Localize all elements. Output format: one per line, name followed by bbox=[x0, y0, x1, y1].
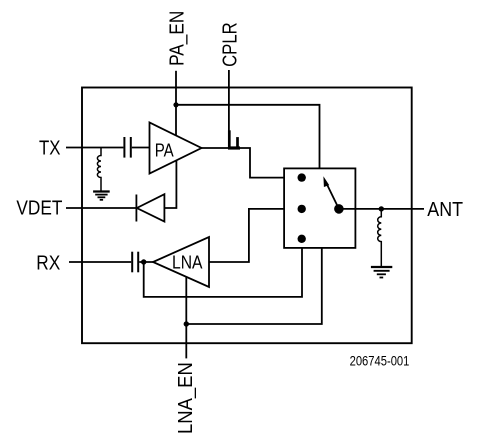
inductor L1 (TX shunt) bbox=[97, 148, 101, 192]
node switch throw 2 bbox=[298, 205, 306, 213]
svg-text:VDET: VDET bbox=[16, 197, 62, 219]
switch U1 box bbox=[284, 168, 355, 248]
ground (TX shunt) bbox=[93, 192, 110, 200]
node PA_EN junction bbox=[173, 102, 178, 107]
wire RX bypass to switch bbox=[144, 239, 302, 297]
wire VDET lead bbox=[66, 207, 136, 209]
op-amp LNA (low noise amplifier) bbox=[153, 237, 209, 287]
node ANT junction bbox=[379, 206, 384, 211]
wire LNA_EN lead bbox=[185, 324, 187, 358]
svg-text:PA: PA bbox=[155, 140, 174, 160]
wire TX lead bbox=[66, 147, 150, 149]
op-amp PA (power amplifier) bbox=[150, 123, 202, 174]
capacitor C1 (TX input) bbox=[124, 137, 130, 158]
node switch pole bbox=[334, 204, 344, 214]
capacitor C2 (RX input) bbox=[132, 252, 138, 273]
wire LNA enable bbox=[185, 277, 187, 325]
node LNA_EN junction bbox=[184, 321, 189, 326]
node switch throw 1 bbox=[298, 173, 306, 181]
node RX junction bbox=[141, 259, 146, 264]
wire switch pole to ANT bbox=[339, 208, 424, 210]
chip outline bbox=[82, 88, 412, 344]
svg-text:LNA: LNA bbox=[172, 253, 203, 273]
wire PA_EN lead bbox=[175, 71, 177, 135]
coupler CPLR tap bbox=[228, 130, 240, 148]
svg-text:RX: RX bbox=[36, 252, 60, 274]
wire RX lead bbox=[69, 261, 153, 263]
wire diode anode to PA bbox=[164, 160, 176, 208]
wire PA output to switch bbox=[202, 148, 302, 178]
ground (ANT shunt) bbox=[371, 267, 392, 278]
inductor L2 (ANT shunt) bbox=[378, 209, 382, 267]
wire PA_EN to switch control bbox=[176, 105, 320, 169]
svg-text:PA_EN: PA_EN bbox=[166, 11, 188, 66]
node switch throw 3 bbox=[298, 235, 306, 243]
svg-text:206745-001: 206745-001 bbox=[350, 353, 410, 368]
svg-text:TX: TX bbox=[39, 137, 61, 159]
svg-text:ANT: ANT bbox=[427, 199, 463, 221]
svg-text:LNA_EN: LNA_EN bbox=[175, 362, 197, 434]
wire LNA output to switch bbox=[209, 209, 302, 262]
switch arm arrow bbox=[323, 176, 339, 209]
wire CPLR lead bbox=[228, 70, 230, 131]
wire LNA_EN to switch bbox=[186, 248, 321, 324]
svg-text:CPLR: CPLR bbox=[219, 22, 241, 67]
diode D1 (VDET detector) bbox=[136, 194, 164, 221]
